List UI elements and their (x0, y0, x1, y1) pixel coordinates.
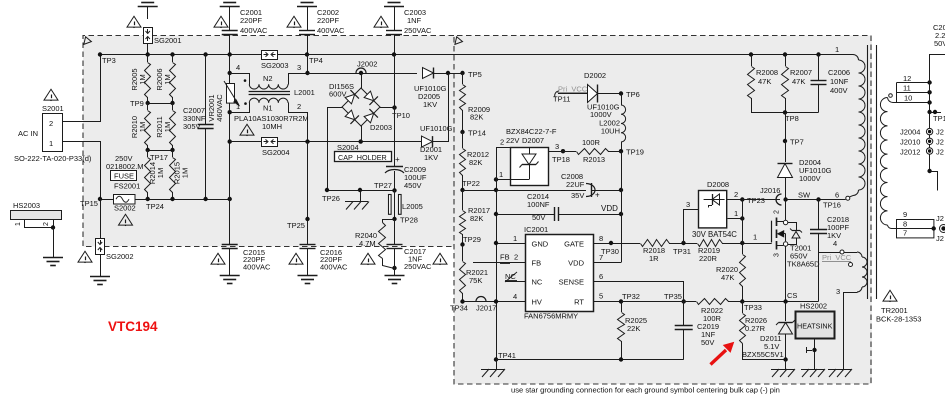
node 3 (297, 55, 310, 76)
pin 4 (819, 239, 845, 254)
pin 4 HV (513, 292, 517, 301)
wire (598, 93, 622, 95)
warning triangle (44, 89, 58, 101)
fuse S2002 (114, 195, 136, 213)
diode D2001 (420, 124, 453, 162)
ground (481, 360, 505, 378)
svg-text:J2004: J2004 (900, 128, 920, 137)
warning triangle (361, 253, 375, 265)
junction (305, 139, 309, 143)
svg-text:9: 9 (903, 210, 907, 219)
warning triangle (289, 253, 303, 265)
svg-text:J2017: J2017 (476, 304, 496, 313)
svg-text:TP4: TP4 (309, 56, 323, 65)
net VDD (601, 204, 618, 213)
transformer TR2001 winding 4-3 (836, 252, 867, 370)
node TP9 (130, 99, 175, 108)
svg-text:6: 6 (835, 191, 839, 200)
node TP29 (460, 235, 481, 247)
resistor R2013 (563, 138, 621, 164)
warning triangle (214, 16, 228, 28)
svg-text:J2002: J2002 (357, 60, 377, 69)
pin 3 NC (505, 272, 525, 282)
svg-text:S2001: S2001 (42, 104, 64, 113)
wire (307, 142, 309, 245)
junction (619, 212, 623, 216)
transformer TR2001 core (868, 45, 877, 299)
wire (751, 112, 819, 114)
junction (932, 226, 936, 230)
svg-text:30V BAT54C: 30V BAT54C (692, 230, 737, 239)
svg-text:J2: J2 (936, 234, 944, 243)
connector J2010 (900, 138, 944, 147)
capacitor C2002 (299, 8, 345, 35)
resistor R2019 (698, 240, 772, 264)
junction (358, 188, 362, 202)
svg-text:TP1: TP1 (933, 114, 945, 123)
svg-text:3: 3 (686, 200, 690, 209)
svg-text:FAN6756MRMY: FAN6756MRMY (524, 312, 578, 321)
capacitor C2018 (810, 200, 850, 302)
ground (828, 369, 852, 377)
junction (146, 52, 150, 56)
svg-text:TP11: TP11 (553, 95, 570, 104)
pin 8 GATE (593, 234, 640, 244)
wire (148, 103, 173, 105)
svg-text:1NF: 1NF (407, 16, 422, 25)
svg-text:SW: SW (798, 191, 811, 200)
resistor R2012 (460, 132, 490, 190)
wire (229, 55, 231, 84)
resistor R2005 (130, 55, 151, 104)
capacitor C2017 (387, 219, 432, 275)
jumper J2016 (742, 186, 781, 205)
wire (786, 199, 846, 201)
svg-text:CAP_HOLDER: CAP_HOLDER (338, 153, 387, 162)
diode D2005 (414, 68, 447, 110)
svg-text:TP35: TP35 (664, 292, 682, 301)
red arrow marker (711, 343, 734, 365)
svg-text:BZX55C5V1: BZX55C5V1 (742, 350, 784, 359)
svg-text:TP25: TP25 (287, 221, 305, 230)
svg-text:R2008: R2008 (756, 68, 778, 77)
capacitor C2014 (496, 192, 621, 222)
junction (783, 357, 787, 369)
svg-text:400V: 400V (830, 86, 848, 95)
svg-text:HEATSINK: HEATSINK (797, 322, 833, 331)
svg-text:VTC194: VTC194 (108, 319, 158, 334)
warning triangle (883, 290, 897, 302)
junction (494, 177, 498, 181)
warning triangle (119, 214, 133, 226)
wire (229, 35, 231, 55)
svg-text:C2006: C2006 (828, 68, 850, 77)
svg-text:SG2001: SG2001 (154, 36, 182, 45)
svg-text:UF1010G: UF1010G (420, 124, 453, 133)
resistor R2011 (155, 103, 176, 150)
jumper J2017 (463, 297, 526, 313)
resistor R2040 (355, 220, 397, 271)
bridge rectifier D2003 (329, 73, 392, 132)
node TP5 (460, 70, 481, 79)
svg-text:SG2002: SG2002 (106, 252, 134, 261)
junction (203, 197, 207, 201)
svg-text:0.27R: 0.27R (745, 324, 766, 333)
junction (816, 52, 820, 56)
node TP14 (460, 129, 486, 138)
junction (816, 197, 820, 201)
warning triangle (127, 16, 141, 28)
svg-text:1: 1 (499, 170, 503, 179)
junction (619, 188, 623, 192)
wire (621, 151, 623, 262)
wire (229, 6, 231, 31)
jumper J2002 (308, 60, 418, 76)
svg-text:J2: J2 (936, 128, 944, 137)
resistor R2017 (460, 190, 491, 245)
svg-text:250VAC: 250VAC (404, 26, 432, 35)
heatsink HS2002 (796, 302, 835, 339)
node TP19 (619, 148, 644, 157)
svg-text:1KV: 1KV (424, 153, 438, 162)
wire (307, 35, 309, 55)
svg-text:TP41: TP41 (498, 351, 516, 360)
ground (385, 276, 405, 284)
pin 5 RT (593, 292, 621, 302)
svg-text:TP34: TP34 (450, 304, 468, 313)
wire (328, 108, 343, 191)
svg-text:TP32: TP32 (622, 292, 640, 301)
junction (228, 71, 232, 75)
svg-text:400VAC: 400VAC (320, 263, 348, 272)
svg-text:10UH: 10UH (601, 127, 620, 136)
wire (147, 6, 149, 19)
svg-text:J2012: J2012 (900, 148, 920, 157)
svg-text:+: + (595, 191, 600, 200)
svg-text:TP16: TP16 (823, 201, 841, 210)
svg-text:6: 6 (599, 272, 603, 281)
resistor R2009 (460, 73, 491, 132)
node TP17 (146, 148, 175, 162)
svg-text:10MH: 10MH (262, 122, 282, 131)
junction (494, 299, 498, 303)
svg-text:4: 4 (513, 292, 517, 301)
capacitor C2009 (385, 155, 427, 190)
svg-text:7: 7 (903, 229, 907, 238)
svg-text:1M: 1M (163, 74, 172, 84)
svg-text:TP31: TP31 (673, 247, 691, 256)
svg-text:1M: 1M (138, 74, 147, 84)
svg-text:TK8A65D: TK8A65D (787, 260, 820, 269)
svg-text:1: 1 (734, 209, 738, 218)
secondary pin header 12/11/10 (894, 74, 930, 103)
inductor L2001 core (249, 88, 315, 97)
node TP11 (553, 95, 570, 104)
svg-text:J2010: J2010 (900, 138, 920, 147)
resistor R2020 (716, 243, 746, 302)
wire (230, 141, 262, 143)
resistor R2026 (740, 302, 786, 360)
svg-text:BZX84C22-7-F: BZX84C22-7-F (506, 127, 557, 136)
svg-text:TP9: TP9 (130, 99, 144, 108)
resistor R2010 (130, 103, 151, 150)
wire (229, 103, 231, 199)
wire (278, 54, 853, 56)
svg-text:400VAC: 400VAC (243, 263, 271, 272)
node TP15 (80, 197, 102, 208)
svg-text:47K: 47K (721, 273, 734, 282)
node TP33 (740, 299, 762, 312)
svg-text:N2: N2 (263, 74, 273, 83)
svg-text:2: 2 (734, 190, 738, 199)
warning triangle (374, 16, 388, 28)
svg-text:D2007: D2007 (522, 136, 544, 145)
pin 1 (494, 234, 525, 245)
node TP27 (374, 181, 397, 193)
svg-text:400VAC: 400VAC (317, 26, 345, 35)
node TP35 (664, 281, 686, 304)
svg-text:2: 2 (500, 138, 504, 147)
net Pri_VCC (555, 85, 588, 98)
wire (147, 43, 149, 55)
svg-text:12: 12 (903, 74, 911, 83)
wire (100, 199, 102, 238)
svg-text:GATE: GATE (564, 240, 584, 249)
resistor R2006 (155, 55, 176, 104)
diode D2002 (584, 71, 620, 119)
node TP7 (783, 112, 804, 146)
svg-text:FB: FB (532, 259, 542, 268)
svg-text:10: 10 (904, 94, 912, 103)
wire (496, 147, 498, 360)
secondary pin header 9/8/7 (897, 210, 935, 238)
transformer TR2001 primary winding 1-6 (850, 55, 865, 197)
svg-text:1: 1 (49, 139, 53, 148)
wire (496, 359, 684, 361)
inductor L2002 (599, 94, 625, 152)
node TP31 (673, 241, 691, 256)
junction (740, 216, 744, 220)
svg-text:4.7M: 4.7M (359, 239, 376, 248)
wire (63, 55, 101, 122)
resistor R2007 (782, 55, 813, 113)
svg-text:220R: 220R (699, 254, 718, 263)
svg-text:GND: GND (532, 240, 549, 249)
junction (203, 52, 207, 56)
svg-text:1R: 1R (649, 254, 659, 263)
ground (220, 276, 240, 284)
junction node 1 (740, 233, 757, 246)
ground (771, 369, 795, 377)
warning triangle (433, 253, 447, 265)
junction (228, 197, 232, 201)
svg-text:4: 4 (833, 239, 837, 248)
node TP25 (287, 217, 310, 230)
svg-text:J2016: J2016 (760, 186, 780, 195)
connector HS2003 (11, 201, 62, 228)
resistor R2021 (460, 245, 489, 302)
svg-text:1KV: 1KV (423, 100, 437, 109)
wire (434, 73, 463, 75)
svg-text:TP24: TP24 (146, 202, 164, 211)
svg-text:SENSE: SENSE (559, 278, 584, 287)
svg-text:8: 8 (599, 234, 603, 243)
switching section dashed border (451, 36, 871, 385)
svg-text:FUSE: FUSE (114, 172, 134, 181)
connector J20xx right (936, 214, 945, 243)
svg-text:CS: CS (787, 291, 797, 300)
dual diode D2008 (684, 180, 743, 244)
note text (511, 386, 780, 395)
svg-text:TP29: TP29 (463, 235, 481, 244)
node TP28 (392, 216, 418, 225)
inductor L2005 (389, 190, 423, 219)
node TP22 (460, 179, 480, 192)
junction (749, 52, 753, 56)
svg-text:3: 3 (774, 253, 781, 257)
svg-text:IC2001: IC2001 (524, 225, 548, 234)
inductor L2001 winding N2 (230, 63, 308, 89)
svg-text:TP14: TP14 (468, 129, 486, 138)
svg-text:3: 3 (297, 63, 301, 72)
svg-text:TP18: TP18 (552, 155, 570, 164)
svg-text:1: 1 (15, 222, 22, 226)
wire (380, 107, 395, 109)
resistor R2022 (684, 299, 743, 324)
svg-text:TP3: TP3 (102, 56, 116, 65)
svg-text:250VAC: 250VAC (404, 262, 432, 271)
wire (806, 338, 817, 369)
node TP23 (740, 196, 765, 205)
svg-text:HS2003: HS2003 (13, 201, 40, 210)
svg-text:400VAC: 400VAC (240, 26, 268, 35)
warning triangle (287, 16, 301, 28)
svg-text:10NF: 10NF (830, 77, 849, 86)
svg-text:TP30: TP30 (601, 247, 619, 256)
svg-text:2: 2 (43, 222, 50, 226)
svg-text:FB: FB (500, 253, 510, 262)
svg-text:1M: 1M (181, 168, 190, 178)
capacitor C2016 (300, 245, 348, 276)
wire (433, 74, 449, 142)
svg-text:2: 2 (297, 102, 301, 111)
svg-text:TP19: TP19 (626, 148, 644, 157)
svg-text:460VAC: 460VAC (215, 94, 224, 122)
wire (394, 35, 396, 55)
svg-text:4: 4 (236, 63, 240, 72)
net SW (798, 191, 811, 200)
svg-text:1: 1 (236, 102, 240, 111)
svg-text:450V: 450V (404, 181, 422, 190)
wire (742, 200, 744, 244)
ground (384, 0, 404, 7)
resistor R2008 (748, 55, 779, 113)
svg-text:220PF: 220PF (317, 16, 340, 25)
svg-text:TP6: TP6 (626, 90, 640, 99)
pin 1 label (835, 45, 839, 54)
fuse FS2001 labels (106, 154, 144, 191)
wire (100, 254, 102, 276)
node TP1x (927, 110, 945, 123)
pin 7 VDD (594, 253, 622, 263)
svg-text:TP28: TP28 (400, 216, 418, 225)
warning triangle (211, 253, 225, 265)
svg-text:1: 1 (513, 234, 517, 243)
svg-text:2: 2 (774, 210, 781, 214)
transistor T2001 (772, 200, 821, 302)
junction (783, 52, 787, 56)
IC IC2001 FAN6756MRMY (524, 225, 594, 321)
svg-text:75K: 75K (469, 276, 482, 285)
svg-text:TP8: TP8 (785, 114, 799, 123)
wire (278, 141, 422, 143)
primary section dashed border (83, 36, 454, 247)
svg-text:NC: NC (532, 278, 543, 287)
svg-text:TP27: TP27 (374, 181, 392, 190)
svg-text:TP26: TP26 (322, 194, 340, 203)
primary border corner mark (84, 37, 92, 45)
svg-text:SO-222-TA-020-P33(d): SO-222-TA-020-P33(d) (14, 154, 92, 163)
node TP26 (322, 188, 340, 203)
junction (392, 52, 396, 56)
junction (359, 139, 363, 143)
svg-text:SG2004: SG2004 (262, 148, 290, 157)
capacitor C2003 (386, 8, 432, 35)
ground (298, 276, 318, 284)
transformer TR2001 secondary winding (880, 97, 896, 228)
pin 6 SENSE (593, 272, 684, 282)
capacitor C2001 (222, 8, 268, 35)
spark gap SG2004 (262, 138, 290, 158)
capacitor C2006 (811, 55, 851, 113)
svg-text:RT: RT (574, 298, 584, 307)
wire (100, 199, 113, 201)
svg-text:47K: 47K (792, 77, 805, 86)
capacitor C2015 (222, 199, 271, 275)
wire (53, 228, 55, 258)
junction (228, 110, 232, 114)
ground (297, 0, 317, 7)
wire (394, 55, 396, 164)
svg-text:305V: 305V (183, 122, 201, 131)
svg-text:7: 7 (599, 253, 603, 262)
ground (345, 202, 369, 210)
svg-text:D2002: D2002 (584, 71, 606, 80)
capacitor C2019 (675, 302, 719, 360)
junction (494, 188, 498, 192)
primary section background (83, 36, 454, 247)
spark gap SG2003 (261, 51, 289, 71)
svg-text:50V: 50V (532, 213, 545, 222)
svg-text:TP33: TP33 (744, 303, 762, 312)
diode D2004 (778, 141, 832, 200)
svg-text:82K: 82K (469, 158, 482, 167)
capacitor C2008 (496, 172, 621, 200)
junction (228, 139, 232, 143)
warning triangle (240, 124, 254, 136)
wire (394, 6, 396, 31)
svg-text:N1: N1 (263, 104, 273, 113)
junction (494, 212, 498, 216)
svg-text:BCK-28-1353: BCK-28-1353 (876, 315, 921, 324)
svg-text:3: 3 (836, 287, 840, 296)
svg-text:22UF: 22UF (566, 180, 585, 189)
connector S2001 (14, 104, 92, 163)
capacitor C20xx top right (933, 23, 945, 48)
svg-text:1M: 1M (163, 122, 172, 132)
svg-text:TP5: TP5 (468, 70, 482, 79)
resistor R2018 (641, 240, 698, 264)
